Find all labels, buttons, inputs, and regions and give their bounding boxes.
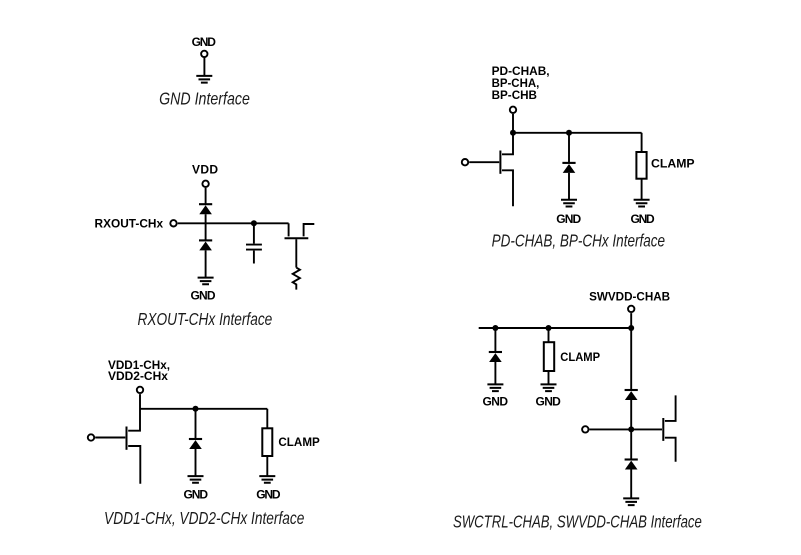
svg-text:GND: GND <box>536 394 562 408</box>
wire <box>205 250 207 277</box>
svg-text:VDD1-CHx, VDD2-CHx Interface: VDD1-CHx, VDD2-CHx Interface <box>104 508 305 528</box>
svg-text:GND Interface: GND Interface <box>159 89 250 109</box>
ground <box>188 476 204 483</box>
node junction <box>566 130 572 136</box>
diode D5 to GND <box>489 352 502 362</box>
svg-text:GND: GND <box>556 212 581 226</box>
terminal PD-CHAB <box>510 107 516 113</box>
wire <box>253 223 255 243</box>
node junction <box>628 325 634 331</box>
transistor Q1 <box>285 223 315 267</box>
diode D2 to GND <box>199 240 212 250</box>
wire rail <box>140 408 267 410</box>
svg-text:GND: GND <box>483 394 509 408</box>
svg-text:VDD: VDD <box>192 162 218 176</box>
svg-text:PD-CHAB, BP-CHx Interface: PD-CHAB, BP-CHx Interface <box>492 230 666 250</box>
terminal SWCTRL input <box>582 426 588 432</box>
clamp box <box>262 428 272 456</box>
wire gate <box>469 161 499 163</box>
node junction <box>193 406 199 412</box>
label VDD1-CHx, VDD2-CHx <box>108 358 170 383</box>
wire <box>205 214 207 240</box>
wire gate <box>95 437 125 439</box>
transistor Q3 <box>500 151 513 207</box>
node junction <box>546 325 552 331</box>
svg-text:GND: GND <box>256 487 281 501</box>
wire drain column <box>128 394 140 431</box>
svg-text:CLAMP: CLAMP <box>278 435 319 449</box>
terminal VDD1/VDD2 <box>137 387 143 393</box>
wire pad rail <box>178 222 289 224</box>
wire <box>548 328 550 342</box>
ground <box>561 200 577 207</box>
ground <box>541 384 557 391</box>
node junction <box>510 130 516 136</box>
wire <box>630 429 632 459</box>
svg-text:CLAMP: CLAMP <box>560 350 600 364</box>
svg-text:RXOUT-CHx: RXOUT-CHx <box>95 217 164 231</box>
terminal gate input <box>88 434 94 440</box>
ground <box>487 384 503 391</box>
terminal GND <box>201 51 207 57</box>
clamp box <box>544 342 554 371</box>
wire <box>494 328 496 352</box>
wire <box>568 133 570 163</box>
wire <box>195 449 197 476</box>
wire <box>630 470 632 499</box>
ground <box>259 476 275 483</box>
resistor R1 <box>293 268 300 290</box>
node junction <box>628 426 634 432</box>
diode D1 to VDD <box>199 204 212 214</box>
wire <box>630 328 632 390</box>
node junction <box>492 325 498 331</box>
svg-text:CLAMP: CLAMP <box>651 157 695 171</box>
ground <box>196 76 212 83</box>
svg-text:SWVDD-CHAB: SWVDD-CHAB <box>589 289 670 303</box>
diode D7 to GND <box>625 460 638 470</box>
terminal VDD <box>202 181 208 187</box>
terminal gate input <box>462 159 468 165</box>
transistor Q2 <box>127 427 141 484</box>
svg-text:GND: GND <box>184 487 209 501</box>
wire <box>568 173 570 200</box>
terminal RXOUT-CHx <box>170 220 176 226</box>
wire <box>630 313 632 328</box>
svg-text:GND: GND <box>190 288 215 302</box>
wire gate <box>590 428 663 430</box>
wire rail <box>513 132 642 134</box>
ground <box>634 200 650 207</box>
wire <box>195 409 197 439</box>
ground <box>623 498 639 505</box>
wire rail <box>479 327 632 329</box>
wire <box>253 251 255 264</box>
diode D3 to GND <box>189 439 202 449</box>
wire <box>641 179 643 200</box>
wire <box>548 371 550 384</box>
svg-text:VDD2-CHx: VDD2-CHx <box>108 369 168 383</box>
label PD-CHAB, BP-CHA, BP-CHB <box>492 64 550 102</box>
node junction <box>251 220 257 226</box>
terminal SWVDD-CHAB <box>628 306 634 312</box>
wire <box>203 57 205 76</box>
wire <box>641 133 643 152</box>
capacitor C1 <box>246 245 262 250</box>
svg-text:SWCTRL-CHAB, SWVDD-CHAB Interf: SWCTRL-CHAB, SWVDD-CHAB Interface <box>453 511 702 531</box>
diode D4 to GND <box>562 163 575 173</box>
wire drain column <box>502 114 513 154</box>
transistor Q4 <box>663 395 675 461</box>
svg-text:BP-CHB: BP-CHB <box>492 88 538 102</box>
wire <box>205 188 207 204</box>
wire <box>266 456 268 476</box>
ground <box>198 278 214 285</box>
svg-text:GND: GND <box>631 212 655 226</box>
diode D6 <box>625 390 638 400</box>
clamp box <box>636 152 646 179</box>
wire <box>630 400 632 429</box>
svg-text:RXOUT-CHx Interface: RXOUT-CHx Interface <box>138 309 273 329</box>
svg-text:GND: GND <box>192 35 217 49</box>
wire <box>266 409 268 429</box>
wire <box>494 362 496 384</box>
